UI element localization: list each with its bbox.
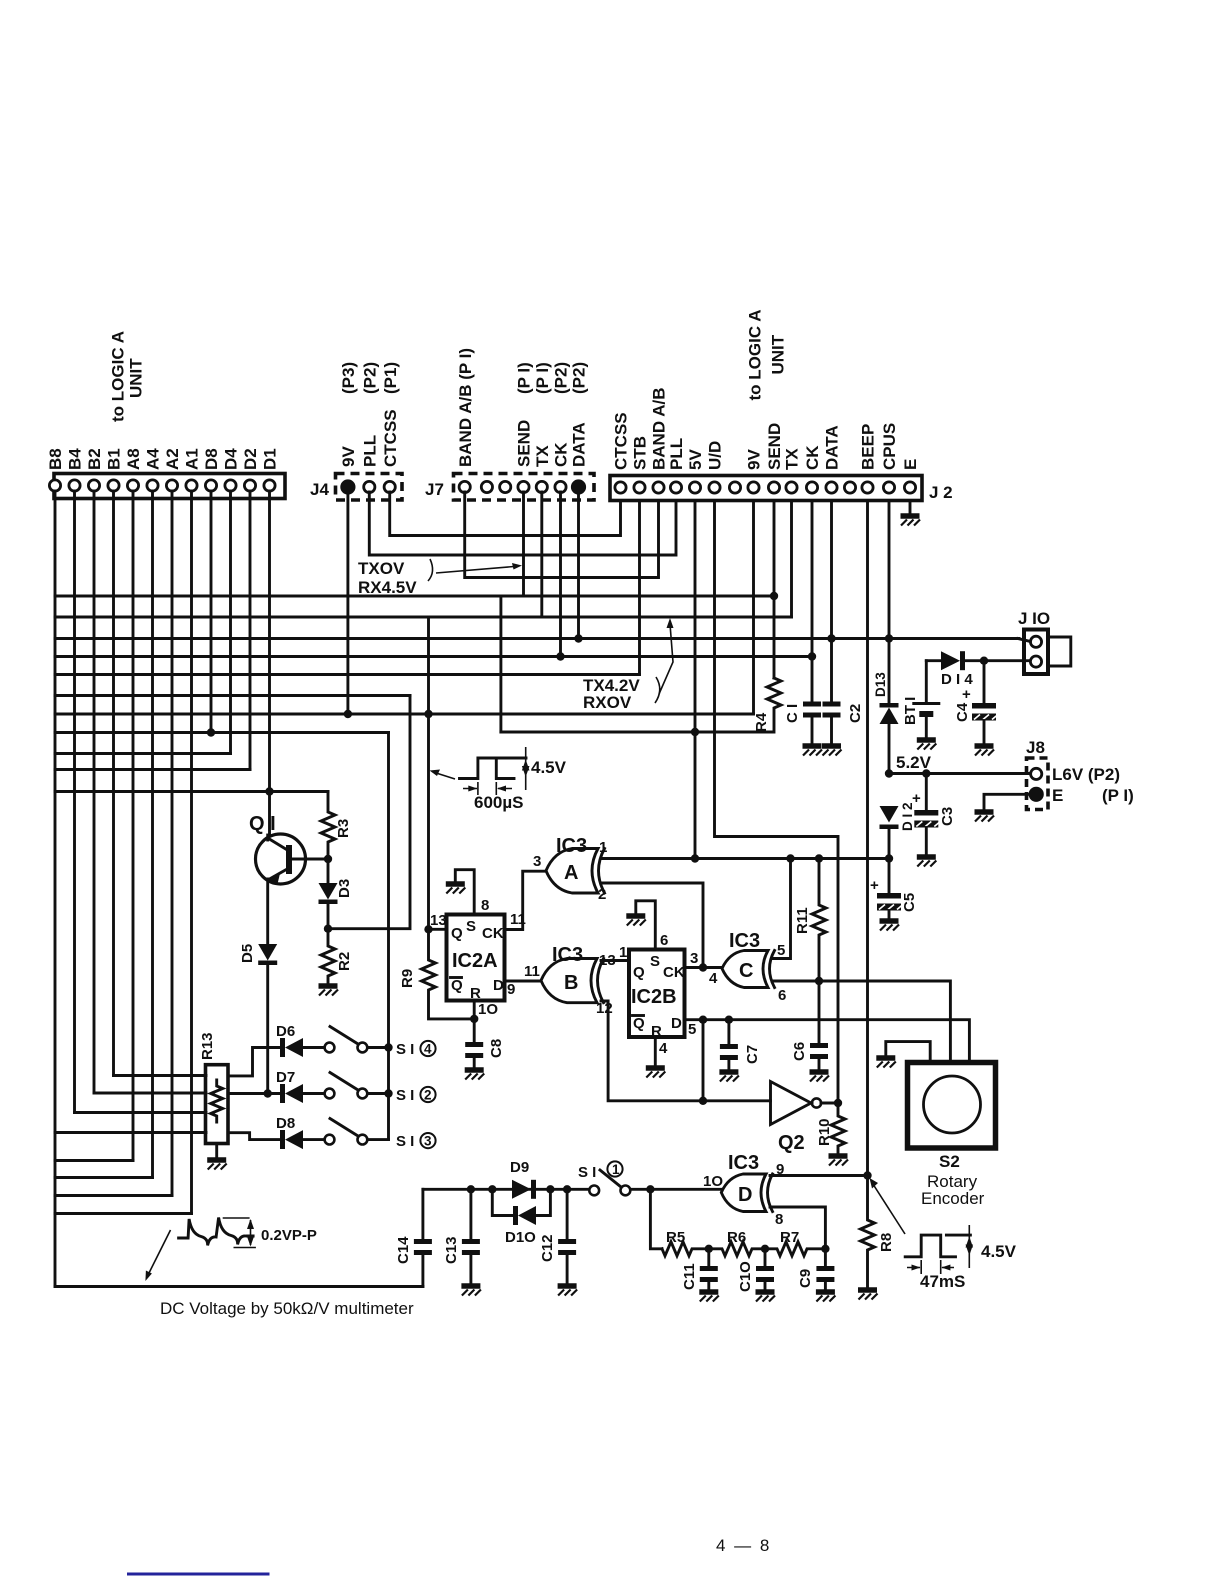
svg-text:5: 5 bbox=[777, 942, 785, 959]
svg-text:B2: B2 bbox=[85, 448, 104, 470]
svg-text:S I: S I bbox=[396, 1133, 414, 1150]
svg-text:UNIT: UNIT bbox=[127, 358, 146, 398]
battery BT1 bbox=[925, 661, 928, 702]
svg-text:R8: R8 bbox=[878, 1233, 895, 1252]
connector J4 bbox=[336, 474, 403, 501]
svg-text:C1O: C1O bbox=[737, 1261, 754, 1292]
wire J2 CPUS column to D13 bbox=[888, 502, 891, 705]
svg-text:Q: Q bbox=[633, 1015, 645, 1032]
ground R8 bbox=[858, 1290, 878, 1300]
wire gate C pin5 up to pin1 line bbox=[772, 859, 791, 959]
svg-text:+: + bbox=[870, 877, 879, 894]
connector J2 bbox=[610, 476, 922, 501]
leader arrow TXOV bbox=[436, 567, 514, 574]
resistor R9 bbox=[422, 929, 475, 1019]
diode D14 bbox=[926, 659, 941, 662]
svg-text:1: 1 bbox=[612, 1162, 620, 1177]
svg-text:Encoder: Encoder bbox=[921, 1189, 985, 1208]
staircase wire B2 to R13 bbox=[94, 1092, 206, 1095]
svg-text:6: 6 bbox=[660, 932, 668, 949]
pin PLL bbox=[364, 481, 375, 492]
pin CTCSS bbox=[384, 481, 395, 492]
svg-text:TXOV: TXOV bbox=[358, 559, 405, 578]
svg-text:R4: R4 bbox=[753, 712, 770, 732]
wire column D1 (to Q1 collector) bbox=[268, 491, 271, 835]
svg-text:S: S bbox=[650, 953, 660, 970]
svg-text:Q: Q bbox=[633, 964, 645, 981]
staircase wire A2 bbox=[55, 1194, 172, 1197]
wire column B4 bbox=[73, 491, 76, 1113]
leader arrow 600uS bbox=[433, 772, 455, 779]
svg-text:0.2VP-P: 0.2VP-P bbox=[261, 1227, 317, 1244]
svg-text:5V: 5V bbox=[686, 449, 705, 470]
svg-text:Q: Q bbox=[451, 977, 463, 994]
svg-text:4 — 8: 4 — 8 bbox=[716, 1536, 771, 1555]
connector J7 bbox=[454, 474, 595, 501]
wire L6 branch to D3 node bbox=[328, 696, 410, 929]
wire J2 CK column to C1 bbox=[811, 502, 814, 702]
svg-text:D2: D2 bbox=[241, 448, 260, 470]
node CK column on L7 bbox=[424, 710, 432, 718]
wire J8 E to ground bbox=[984, 794, 1030, 809]
ground J2 E bbox=[901, 516, 921, 526]
xor gate IC3 B (mirrored) bbox=[541, 959, 597, 1003]
wire column A2 bbox=[171, 491, 174, 1196]
svg-text:D5: D5 bbox=[239, 944, 256, 963]
wire gate A pin2 to IC2B CK node bbox=[601, 883, 703, 968]
wire IC2B pin3 CK to gate C bbox=[685, 966, 723, 969]
capacitor C2 bbox=[823, 702, 841, 707]
svg-text:C: C bbox=[739, 960, 753, 982]
diode D7 bbox=[280, 1084, 285, 1103]
capacitor C4 electrolytic bbox=[983, 661, 986, 703]
svg-text:B: B bbox=[564, 972, 578, 994]
svg-text:DATA: DATA bbox=[823, 425, 842, 470]
svg-text:+: + bbox=[962, 686, 971, 703]
wire S2 ground bbox=[886, 1042, 930, 1063]
svg-text:A: A bbox=[564, 862, 578, 884]
capacitor C9 bbox=[824, 1249, 827, 1266]
flip-flop IC2B bbox=[629, 950, 685, 1038]
node gateC pin5 col on pin1 bbox=[786, 854, 794, 862]
svg-text:J7: J7 bbox=[425, 480, 444, 499]
wire J2 9V column bbox=[752, 502, 755, 714]
wire L1 branch down bbox=[499, 596, 502, 732]
svg-text:RXOV: RXOV bbox=[583, 693, 632, 712]
svg-text:CK: CK bbox=[552, 442, 571, 467]
svg-text:47mS: 47mS bbox=[920, 1272, 965, 1291]
diode D13 bbox=[880, 703, 899, 708]
wire J4 CTCSS to J2 CTCSS bbox=[390, 492, 621, 536]
svg-text:CTCSS: CTCSS bbox=[612, 412, 631, 470]
node C3 bbox=[922, 769, 930, 777]
svg-text:J IO: J IO bbox=[1018, 609, 1050, 628]
svg-text:3: 3 bbox=[690, 950, 698, 967]
svg-text:D: D bbox=[493, 977, 504, 994]
svg-text:IC3: IC3 bbox=[552, 944, 583, 966]
wire J2 E pin bbox=[909, 502, 912, 514]
node R11 on pin1 bbox=[815, 854, 823, 862]
wire J7 CK column bbox=[559, 492, 562, 657]
wire gate D pin8 to C9 node bbox=[770, 1207, 825, 1249]
node 5V on pin1 bbox=[691, 854, 699, 862]
switch S1-1 bbox=[589, 1186, 599, 1196]
xor gate IC3 C (mirrored) bbox=[722, 951, 768, 988]
svg-text:PLL: PLL bbox=[667, 438, 686, 470]
wire IC2B pin6 S to ground bbox=[636, 901, 656, 950]
svg-text:UNIT: UNIT bbox=[769, 334, 788, 374]
capacitor C5 electrolytic bbox=[888, 859, 891, 894]
svg-text:CK: CK bbox=[803, 445, 822, 470]
svg-text:S I: S I bbox=[396, 1087, 414, 1104]
svg-text:CK: CK bbox=[663, 964, 685, 981]
svg-text:D3: D3 bbox=[336, 879, 353, 898]
diode D10 loop bbox=[492, 1189, 513, 1215]
svg-text:Q: Q bbox=[451, 925, 463, 942]
resistor R6 bbox=[709, 1242, 765, 1256]
leader arrow TX4.2V bbox=[659, 624, 673, 694]
pulse diagram 47mS bbox=[905, 1235, 955, 1257]
node D1 column on L11 bbox=[265, 787, 273, 795]
svg-text:TX: TX bbox=[783, 448, 802, 470]
wire CK/IC2A column bbox=[427, 617, 430, 929]
resistor R11 bbox=[812, 859, 826, 982]
svg-text:C3: C3 bbox=[939, 807, 956, 826]
svg-text:8: 8 bbox=[481, 897, 489, 914]
svg-text:R2: R2 bbox=[336, 952, 353, 971]
wire IC2A pin11 CK to gate A output 3 bbox=[505, 871, 547, 929]
wire J4 9V column bbox=[346, 492, 349, 714]
svg-text:D7: D7 bbox=[276, 1069, 295, 1086]
wire J2 TX column bbox=[790, 502, 793, 617]
svg-text:to LOGIC A: to LOGIC A bbox=[746, 310, 765, 401]
svg-text:D1: D1 bbox=[261, 448, 280, 470]
wire column D8 bbox=[210, 491, 213, 733]
bottom long wire to C14 bbox=[55, 1285, 423, 1288]
node R11/C6 on pin6 line bbox=[815, 977, 823, 985]
svg-text:CK: CK bbox=[482, 925, 504, 942]
node IC2B CK / gate C out 4 bbox=[699, 963, 707, 971]
switch S1-3 bbox=[325, 1135, 335, 1145]
wire J4 PLL to J2 PLL bbox=[369, 492, 676, 555]
wire 5.2V to J8 bbox=[889, 772, 1031, 775]
wire IC2A pin8 S to ground bbox=[455, 870, 474, 915]
5.2V node bbox=[885, 769, 893, 777]
node D5 / D7 row bbox=[264, 1089, 272, 1097]
svg-text:4.5V: 4.5V bbox=[981, 1242, 1017, 1261]
svg-text:BEEP: BEEP bbox=[859, 424, 878, 470]
bus line L8a switch common bbox=[55, 731, 389, 734]
svg-text:6: 6 bbox=[778, 987, 786, 1004]
svg-text:C4: C4 bbox=[954, 702, 971, 722]
svg-text:R9: R9 bbox=[399, 969, 416, 988]
svg-text:IC3: IC3 bbox=[556, 835, 587, 857]
svg-text:C9: C9 bbox=[797, 1269, 814, 1288]
node Q1 base / R3 / D3 bbox=[324, 855, 332, 863]
wire J2 BEEP column bbox=[866, 502, 869, 1175]
svg-text:(P1): (P1) bbox=[381, 362, 400, 394]
xor gate IC3 A (mirrored) bbox=[546, 849, 598, 894]
svg-text:DC Voltage by 50kΩ/V multimete: DC Voltage by 50kΩ/V multimeter bbox=[160, 1299, 414, 1318]
wire J2 SEND column to R4 bbox=[773, 502, 776, 678]
svg-text:D8: D8 bbox=[202, 448, 221, 470]
J7 pins bbox=[459, 481, 470, 492]
wire column B1 bbox=[112, 491, 115, 1076]
staircase wire B1 to R13 bbox=[114, 1074, 207, 1077]
svg-text:C8: C8 bbox=[488, 1039, 505, 1058]
svg-text:RX4.5V: RX4.5V bbox=[358, 578, 417, 597]
staircase wire A1 bbox=[55, 1212, 192, 1215]
wire J2 DATA column to C2 bbox=[830, 502, 833, 702]
svg-text:S: S bbox=[466, 918, 476, 935]
J2 pins bbox=[615, 482, 626, 493]
wire R13 to D8 bbox=[228, 1133, 280, 1140]
wire pin5 to pin12 rail bbox=[702, 1020, 705, 1101]
svg-text:L6V (P2): L6V (P2) bbox=[1052, 765, 1120, 784]
svg-text:(P2): (P2) bbox=[361, 362, 380, 394]
svg-text:C I: C I bbox=[784, 704, 801, 723]
wire column D2 bbox=[249, 491, 252, 770]
svg-text:R10: R10 bbox=[816, 1118, 833, 1146]
bus line L9 bbox=[55, 752, 231, 755]
svg-text:R3: R3 bbox=[335, 819, 352, 838]
svg-text:E: E bbox=[901, 459, 920, 470]
wire IC2A pin10 R bbox=[473, 1001, 476, 1019]
capacitor C10 bbox=[764, 1249, 767, 1266]
wire column D4 bbox=[229, 491, 232, 754]
wire R13 to D6 bbox=[228, 1048, 280, 1076]
svg-text:A4: A4 bbox=[144, 448, 163, 470]
wire J2 STB column bbox=[638, 502, 641, 675]
xor gate IC3 D (mirrored) bbox=[721, 1174, 766, 1212]
svg-text:A8: A8 bbox=[124, 448, 143, 470]
svg-text:Q2: Q2 bbox=[778, 1132, 805, 1154]
bus line L11 to R3 bbox=[55, 790, 328, 793]
bus line L3 DATA net to J10 bbox=[55, 637, 1019, 640]
svg-text:IC2B: IC2B bbox=[631, 986, 677, 1008]
svg-text:11: 11 bbox=[510, 911, 526, 928]
wire gate B pin12 to Q2 input rail bbox=[601, 1001, 771, 1101]
pin 9V (filled) bbox=[341, 480, 354, 493]
staircase wire A8 bbox=[55, 1159, 133, 1162]
node D3 / R2 bbox=[324, 925, 332, 933]
diode D8 bbox=[280, 1130, 285, 1149]
node Q2 output bbox=[834, 1099, 842, 1107]
svg-text:4: 4 bbox=[659, 1040, 668, 1057]
wire J2 U/D column to Q2 rail bbox=[715, 502, 839, 1103]
resistor R7 bbox=[765, 1242, 825, 1256]
connector J10 bbox=[1024, 630, 1048, 675]
wire R13 to D7 bbox=[228, 1092, 280, 1095]
svg-text:SEND: SEND bbox=[765, 423, 784, 470]
svg-text:to LOGIC A: to LOGIC A bbox=[109, 331, 128, 422]
wire gate B pin13 to IC2B pin1 bbox=[601, 959, 629, 962]
node C2 column on L3 bbox=[827, 634, 835, 642]
svg-text:J8: J8 bbox=[1026, 738, 1045, 757]
svg-text:C5: C5 bbox=[901, 893, 918, 912]
svg-text:5: 5 bbox=[688, 1021, 696, 1038]
ground R13 bbox=[215, 1144, 218, 1159]
diode D6 bbox=[280, 1038, 285, 1057]
svg-text:9V: 9V bbox=[745, 449, 764, 470]
rotary encoder S2 box bbox=[908, 1063, 996, 1149]
wire gate C pin6 line to S2 bbox=[772, 981, 950, 1063]
pin circles left connector bbox=[49, 480, 60, 491]
svg-text:13: 13 bbox=[430, 912, 447, 929]
staircase wire B4 to R13 bbox=[75, 1111, 207, 1114]
node CK J2 / C1 on L4 bbox=[808, 652, 816, 660]
staircase wire B8 to R13 bbox=[55, 1131, 206, 1134]
svg-text:(P I): (P I) bbox=[1102, 786, 1134, 805]
svg-text:1: 1 bbox=[599, 839, 607, 856]
wire column A1 bbox=[190, 491, 193, 1214]
svg-text:BAND A/B: BAND A/B bbox=[650, 388, 669, 470]
wire switch common column bbox=[387, 733, 390, 1140]
svg-text:A1: A1 bbox=[183, 448, 202, 470]
wire column B8 bbox=[54, 491, 57, 1287]
svg-text:9: 9 bbox=[507, 981, 515, 998]
svg-text:J4: J4 bbox=[310, 480, 329, 499]
wire pin13 bbox=[429, 928, 447, 931]
transistor Q1 bbox=[256, 834, 306, 884]
wire IC2A pin9 D to gate B output 11 bbox=[505, 980, 542, 983]
svg-text:C14: C14 bbox=[395, 1236, 412, 1264]
capacitor C7 bbox=[727, 1020, 730, 1044]
bus line L7 9V net bbox=[55, 713, 754, 716]
switch S1-2 bbox=[325, 1089, 335, 1099]
capacitor C11 bbox=[707, 1249, 710, 1266]
svg-text:11: 11 bbox=[524, 963, 540, 980]
wire column A4 bbox=[151, 491, 154, 1178]
svg-text:D9: D9 bbox=[510, 1159, 529, 1176]
capacitor C3 electrolytic bbox=[925, 774, 928, 811]
node pin5/C7 bbox=[725, 1016, 733, 1024]
svg-text:TX: TX bbox=[533, 445, 552, 467]
node C11 bbox=[705, 1245, 713, 1253]
diode D9 bbox=[512, 1180, 531, 1199]
svg-text:1O: 1O bbox=[703, 1173, 723, 1190]
svg-text:4: 4 bbox=[424, 1042, 432, 1057]
svg-text:600µS: 600µS bbox=[474, 793, 524, 812]
wire column B2 bbox=[93, 491, 96, 1093]
svg-text:DATA: DATA bbox=[570, 422, 589, 467]
svg-text:12: 12 bbox=[596, 1000, 613, 1017]
wire L3 to J10 top pin bbox=[1018, 639, 1030, 642]
svg-text:SEND: SEND bbox=[515, 420, 534, 467]
capacitor C8 bbox=[473, 1019, 476, 1042]
switch S1-4 bbox=[325, 1043, 335, 1053]
node D9 right bbox=[546, 1185, 554, 1193]
wire column A8 bbox=[132, 491, 135, 1161]
svg-text:A2: A2 bbox=[163, 448, 182, 470]
wire J7 SEND column bbox=[522, 492, 525, 596]
svg-text:Q I: Q I bbox=[249, 813, 276, 835]
node DATA J7 on L3 bbox=[574, 634, 582, 642]
svg-text:U/D: U/D bbox=[706, 441, 725, 470]
node D8 on L8a bbox=[207, 728, 215, 736]
svg-text:B1: B1 bbox=[105, 448, 124, 470]
diode D5 bbox=[258, 944, 277, 961]
svg-text:R11: R11 bbox=[794, 907, 811, 934]
svg-text:S2: S2 bbox=[939, 1152, 960, 1171]
svg-text:D: D bbox=[738, 1184, 752, 1206]
leader arrow 47mS bbox=[871, 1181, 905, 1234]
svg-text:STB: STB bbox=[631, 436, 650, 470]
bus line L1 SEND net bbox=[55, 595, 774, 598]
svg-text:BAND A/B (P I): BAND A/B (P I) bbox=[456, 348, 475, 467]
wire IC2B pin4 R to ground bbox=[654, 1037, 657, 1066]
svg-text:IC3: IC3 bbox=[728, 1152, 759, 1174]
svg-text:E: E bbox=[1052, 786, 1063, 805]
node pin12 rail bbox=[699, 1097, 707, 1105]
svg-text:(P2): (P2) bbox=[552, 362, 571, 394]
resistor network R13 bbox=[206, 1065, 229, 1144]
node C12 bbox=[563, 1185, 571, 1193]
staircase wire A4 bbox=[55, 1176, 153, 1179]
svg-text:C11: C11 bbox=[681, 1263, 698, 1290]
bus line L5 STB net bbox=[55, 673, 640, 676]
wire gate A pin1 line bbox=[601, 857, 889, 860]
svg-text:D6: D6 bbox=[276, 1023, 295, 1040]
flip-flop IC2A bbox=[447, 915, 505, 1001]
svg-text:5.2V: 5.2V bbox=[896, 753, 932, 772]
svg-text:2: 2 bbox=[598, 886, 606, 903]
svg-text:(P I): (P I) bbox=[515, 362, 534, 394]
bus line L6 bbox=[55, 694, 410, 697]
node pin9 / BEEP / R8 bbox=[863, 1171, 871, 1179]
wire IC2B pin5 D line to S2 bbox=[685, 1020, 970, 1063]
capacitor C1 bbox=[803, 702, 821, 707]
node CK J7 on L4 bbox=[556, 652, 564, 660]
node J4 9V on L7 bbox=[344, 710, 352, 718]
svg-text:R6: R6 bbox=[727, 1229, 746, 1246]
ground R2 bbox=[319, 986, 339, 996]
svg-text:3: 3 bbox=[424, 1134, 432, 1149]
svg-text:D4: D4 bbox=[222, 448, 241, 470]
svg-text:D13: D13 bbox=[873, 672, 888, 697]
node R5 tap bbox=[646, 1185, 654, 1193]
bus line L4 CK net bbox=[55, 655, 812, 658]
leader arrow DC voltage bbox=[147, 1230, 171, 1277]
svg-text:C12: C12 bbox=[539, 1234, 556, 1262]
svg-text:R13: R13 bbox=[199, 1032, 216, 1060]
svg-text:IC2A: IC2A bbox=[452, 950, 498, 972]
svg-text:(P3): (P3) bbox=[339, 362, 358, 394]
svg-text:BT I: BT I bbox=[902, 697, 919, 725]
svg-text:B8: B8 bbox=[46, 448, 65, 470]
diode D12 bbox=[880, 806, 899, 823]
svg-text:C2: C2 bbox=[847, 704, 864, 723]
svg-text:1: 1 bbox=[619, 944, 627, 961]
svg-text:C13: C13 bbox=[443, 1236, 460, 1264]
svg-text:(P I): (P I) bbox=[533, 362, 552, 394]
diode D3 bbox=[327, 859, 330, 883]
bus line L10 bbox=[55, 768, 250, 771]
node pin5/vert bbox=[699, 1016, 707, 1024]
waveform 0.2VP-P bbox=[179, 1218, 254, 1246]
bus line L8b to R4 bbox=[501, 731, 773, 734]
node C4 bbox=[980, 657, 988, 665]
node C13 bbox=[467, 1185, 475, 1193]
resistor R3 bbox=[321, 792, 335, 860]
svg-text:B4: B4 bbox=[66, 448, 85, 470]
node SEND J2 on L1 bbox=[770, 592, 778, 600]
capacitor C13 bbox=[469, 1189, 472, 1239]
resistor R4 bbox=[767, 678, 781, 732]
svg-text:CPUS: CPUS bbox=[880, 423, 899, 470]
svg-text:C7: C7 bbox=[744, 1045, 761, 1064]
svg-text:D1O: D1O bbox=[505, 1229, 536, 1246]
